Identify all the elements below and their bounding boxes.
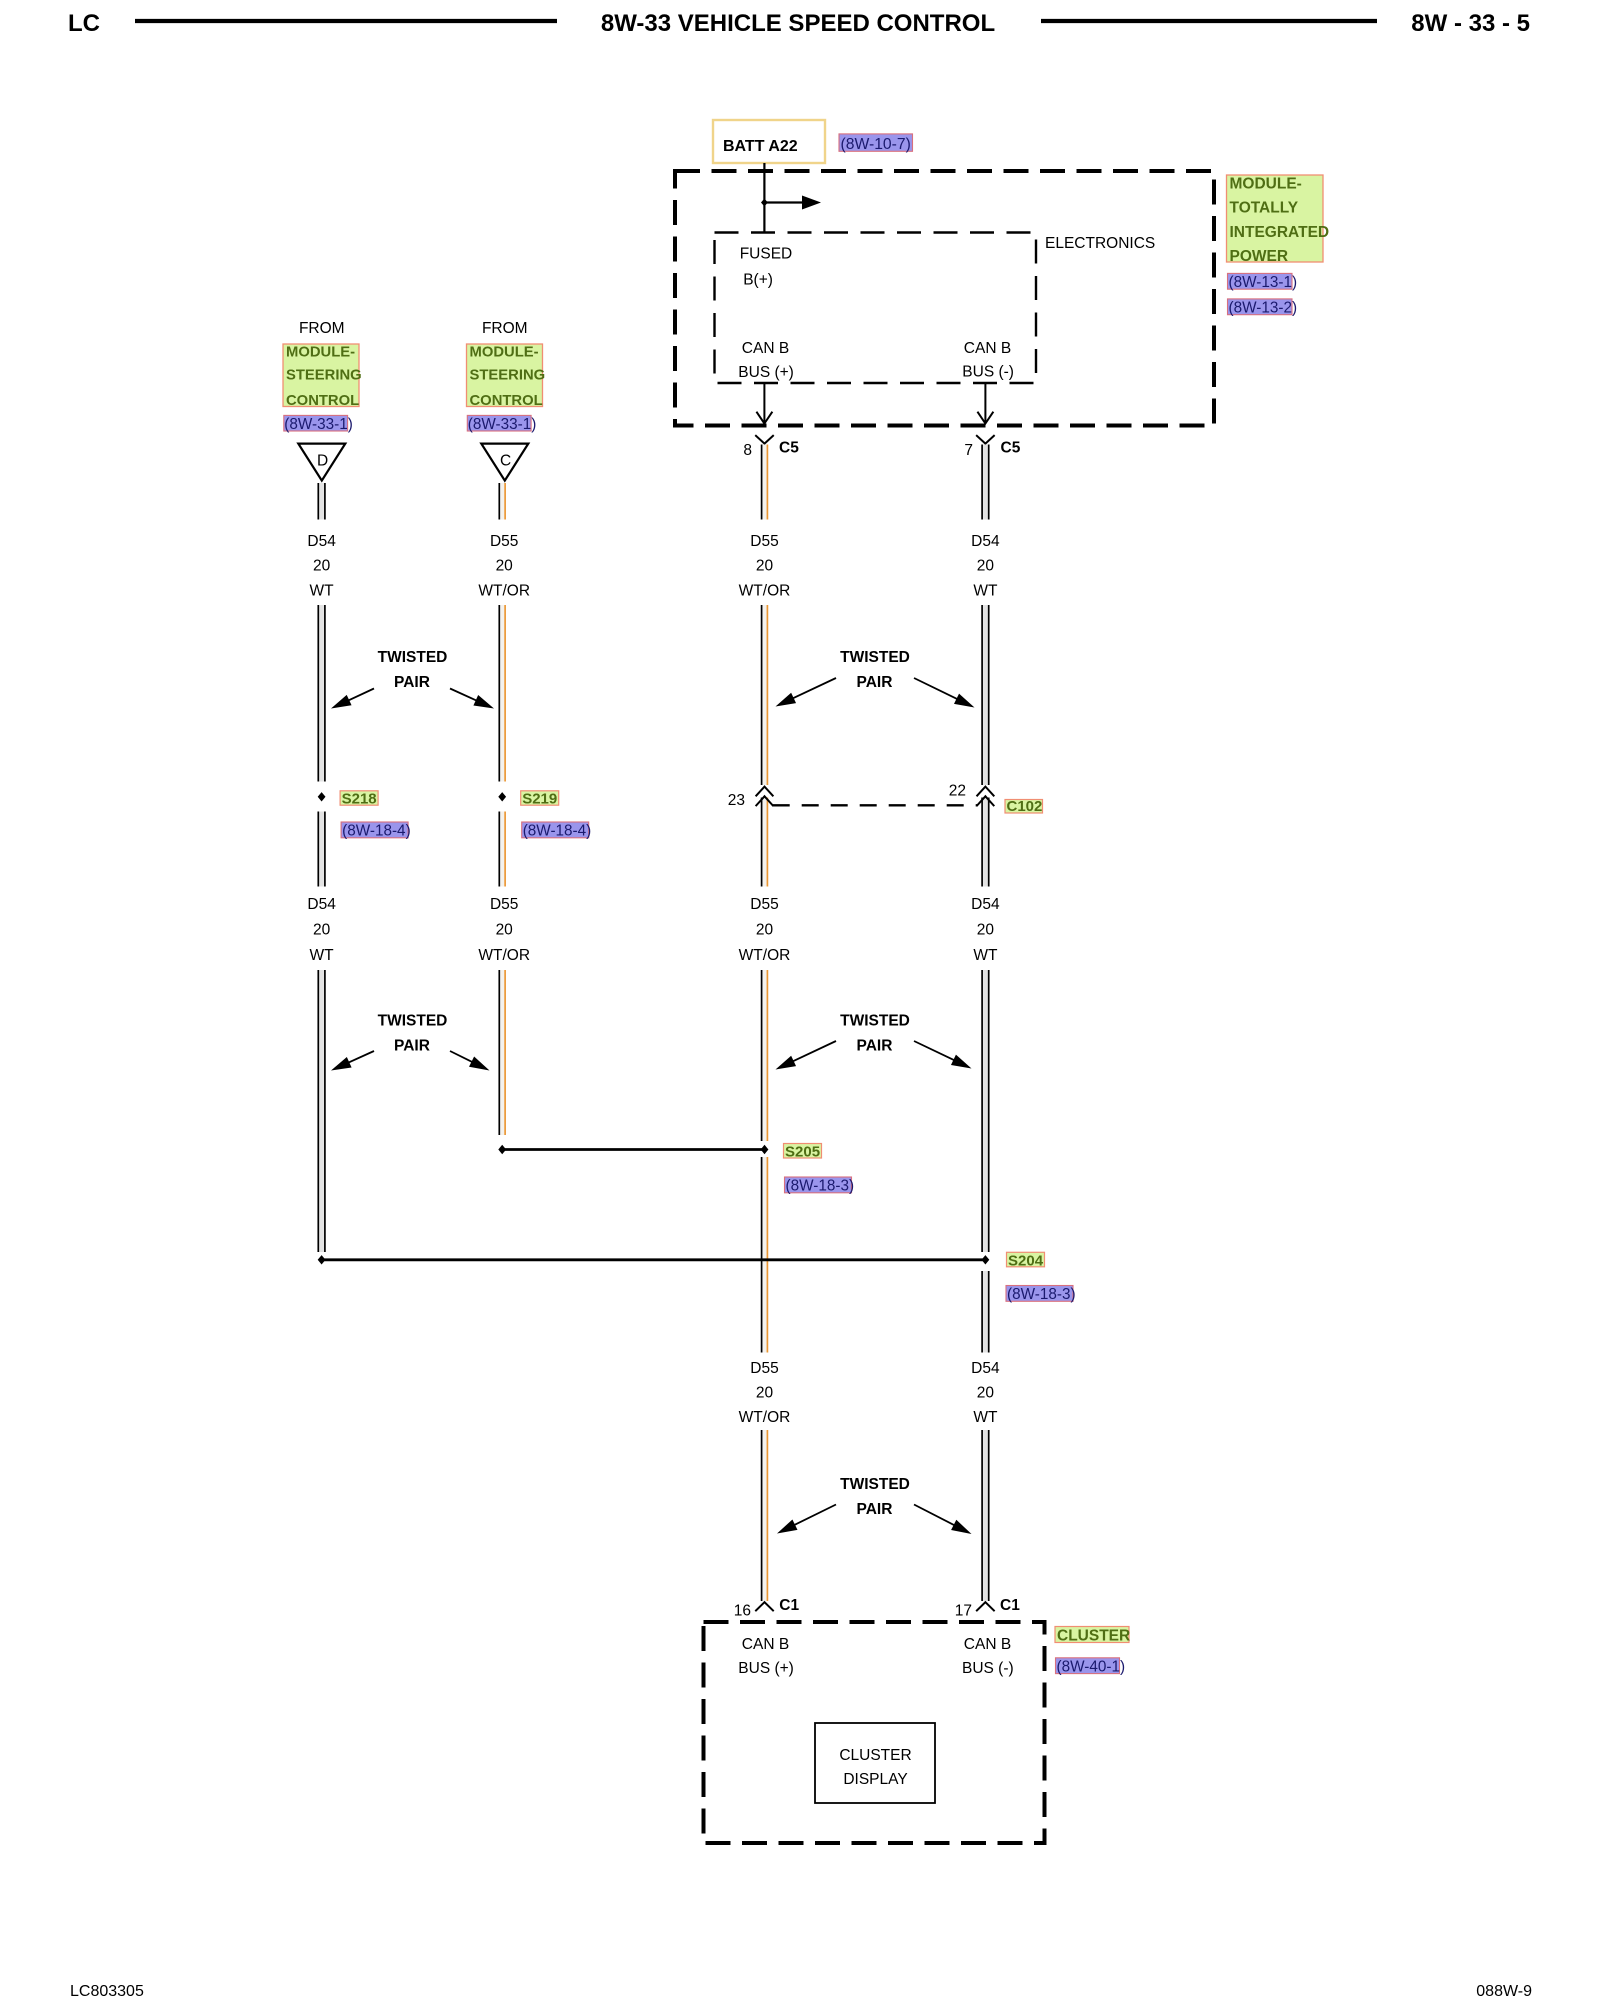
svg-text:TOTALLY: TOTALLY	[1230, 199, 1299, 216]
svg-text:C102: C102	[1007, 798, 1043, 815]
svg-text:CLUSTER: CLUSTER	[839, 1747, 911, 1764]
svg-text:(8W-18-4): (8W-18-4)	[342, 823, 411, 840]
svg-text:FROM: FROM	[299, 320, 345, 337]
svg-text:088W-9: 088W-9	[1476, 1983, 1532, 2000]
svg-text:CAN B: CAN B	[964, 1636, 1011, 1653]
svg-text:PAIR: PAIR	[857, 1501, 893, 1518]
svg-text:C1: C1	[1000, 1597, 1020, 1614]
svg-text:(8W-33-1): (8W-33-1)	[284, 416, 353, 433]
svg-text:WT/OR: WT/OR	[478, 583, 530, 600]
svg-text:LC803305: LC803305	[70, 1983, 144, 2000]
svg-text:BATT A22: BATT A22	[723, 138, 798, 155]
svg-text:B(+): B(+)	[743, 272, 773, 289]
svg-text:TWISTED: TWISTED	[378, 1013, 448, 1030]
svg-text:20: 20	[496, 922, 514, 939]
svg-text:BUS (-): BUS (-)	[962, 364, 1014, 381]
svg-text:TWISTED: TWISTED	[840, 1476, 910, 1493]
svg-text:MODULE-: MODULE-	[286, 344, 355, 360]
svg-text:S205: S205	[785, 1143, 820, 1160]
svg-text:C1: C1	[779, 1597, 799, 1614]
svg-text:WT: WT	[973, 947, 998, 964]
svg-text:20: 20	[756, 558, 774, 575]
svg-text:WT: WT	[973, 1409, 998, 1426]
svg-text:MODULE-: MODULE-	[1230, 175, 1302, 192]
svg-text:DISPLAY: DISPLAY	[843, 1771, 907, 1788]
svg-text:D55: D55	[750, 533, 778, 550]
svg-text:S218: S218	[342, 791, 377, 808]
svg-text:MODULE-: MODULE-	[470, 344, 539, 360]
svg-text:CAN B: CAN B	[964, 340, 1011, 357]
svg-text:PAIR: PAIR	[857, 1038, 893, 1055]
svg-text:20: 20	[496, 558, 514, 575]
svg-text:20: 20	[977, 558, 995, 575]
svg-text:CONTROL: CONTROL	[286, 393, 359, 409]
svg-text:BUS (+): BUS (+)	[738, 1660, 794, 1677]
svg-text:TWISTED: TWISTED	[378, 649, 448, 666]
svg-text:CONTROL: CONTROL	[470, 393, 543, 409]
svg-text:(8W-13-1): (8W-13-1)	[1229, 274, 1298, 291]
svg-text:FUSED: FUSED	[740, 246, 793, 263]
svg-text:WT: WT	[310, 583, 335, 600]
svg-text:20: 20	[756, 922, 774, 939]
svg-text:16: 16	[734, 1603, 751, 1620]
svg-text:20: 20	[977, 1385, 995, 1402]
svg-text:LC: LC	[68, 10, 100, 37]
svg-text:TWISTED: TWISTED	[840, 649, 910, 666]
svg-text:8W - 33 - 5: 8W - 33 - 5	[1411, 10, 1530, 37]
svg-text:C5: C5	[779, 440, 799, 457]
svg-text:(8W-18-3): (8W-18-3)	[786, 1177, 855, 1194]
svg-text:STEERING: STEERING	[470, 368, 546, 384]
svg-text:CAN B: CAN B	[742, 340, 789, 357]
svg-text:STEERING: STEERING	[286, 368, 362, 384]
svg-text:(8W-40-1): (8W-40-1)	[1057, 1658, 1126, 1675]
svg-text:WT/OR: WT/OR	[478, 947, 530, 964]
svg-text:INTEGRATED: INTEGRATED	[1230, 224, 1330, 241]
svg-text:D55: D55	[490, 533, 518, 550]
svg-text:C5: C5	[1001, 440, 1021, 457]
svg-text:WT/OR: WT/OR	[739, 1409, 791, 1426]
svg-text:20: 20	[756, 1385, 774, 1402]
svg-text:(8W-10-7): (8W-10-7)	[841, 136, 911, 153]
svg-text:22: 22	[949, 783, 966, 800]
svg-text:PAIR: PAIR	[394, 674, 430, 691]
svg-text:D54: D54	[971, 896, 1000, 913]
svg-text:D54: D54	[307, 896, 336, 913]
svg-text:D54: D54	[971, 533, 1000, 550]
svg-text:ELECTRONICS: ELECTRONICS	[1045, 235, 1155, 252]
svg-text:S219: S219	[522, 791, 557, 808]
svg-text:C: C	[500, 453, 511, 470]
svg-text:D54: D54	[971, 1360, 1000, 1377]
svg-text:20: 20	[313, 922, 331, 939]
svg-text:D: D	[317, 453, 328, 470]
svg-text:7: 7	[964, 442, 973, 459]
svg-text:D55: D55	[490, 896, 518, 913]
svg-text:TWISTED: TWISTED	[840, 1013, 910, 1030]
svg-text:POWER: POWER	[1230, 248, 1289, 265]
svg-text:CAN B: CAN B	[742, 1636, 789, 1653]
svg-text:8: 8	[743, 442, 752, 459]
svg-text:20: 20	[313, 558, 331, 575]
svg-text:BUS (-): BUS (-)	[962, 1660, 1014, 1677]
svg-text:WT: WT	[310, 947, 335, 964]
svg-text:S204: S204	[1008, 1252, 1044, 1269]
svg-text:(8W-33-1): (8W-33-1)	[468, 416, 537, 433]
svg-text:17: 17	[955, 1603, 972, 1620]
svg-text:PAIR: PAIR	[857, 674, 893, 691]
svg-text:CLUSTER: CLUSTER	[1057, 1628, 1130, 1645]
svg-text:8W-33 VEHICLE SPEED CONTROL: 8W-33 VEHICLE SPEED CONTROL	[601, 10, 995, 37]
svg-text:WT/OR: WT/OR	[739, 583, 791, 600]
svg-text:D55: D55	[750, 1360, 778, 1377]
svg-text:(8W-18-3): (8W-18-3)	[1007, 1286, 1076, 1303]
svg-text:23: 23	[728, 792, 745, 809]
svg-text:WT: WT	[973, 583, 998, 600]
svg-text:WT/OR: WT/OR	[739, 947, 791, 964]
svg-text:D55: D55	[750, 896, 778, 913]
svg-text:PAIR: PAIR	[394, 1038, 430, 1055]
svg-text:BUS (+): BUS (+)	[738, 364, 794, 381]
svg-text:FROM: FROM	[482, 320, 528, 337]
svg-text:(8W-18-4): (8W-18-4)	[523, 823, 592, 840]
svg-text:20: 20	[977, 922, 995, 939]
svg-text:D54: D54	[307, 533, 336, 550]
svg-text:(8W-13-2): (8W-13-2)	[1229, 300, 1298, 317]
